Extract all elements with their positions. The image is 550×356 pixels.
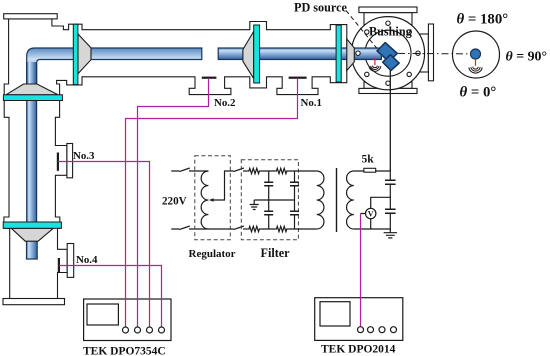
- sensor No.2: [202, 77, 217, 79]
- svg-text:Regulator: Regulator: [189, 248, 236, 260]
- vertical tank bottom end plate: [3, 299, 65, 305]
- svg-text:V: V: [368, 209, 374, 218]
- svg-text:θ = 90°: θ = 90°: [506, 50, 548, 65]
- discharge mark (red): [374, 58, 376, 65]
- svg-text:No.2: No.2: [214, 97, 235, 109]
- basin insulator cone at chamber entrance: [347, 39, 355, 71]
- basin insulator cone at flange A: [78, 34, 91, 74]
- basin insulator cone above vertical flange 1: [6, 84, 58, 95]
- secondary top wire: [354, 170, 391, 172]
- PD chamber top stub: [364, 13, 412, 25]
- wire sensor No.1 to scope ch1: [126, 78, 298, 327]
- transformer core: [336, 168, 338, 232]
- regulator winding: [201, 171, 208, 229]
- PD source dot: [471, 49, 481, 59]
- chamber inner flange circle: [365, 30, 411, 76]
- dot discharge line (red): [475, 59, 477, 66]
- bushing (rotated rectangle): [377, 43, 397, 62]
- regulator dashed box: [195, 156, 231, 240]
- sensor No.3 pod plate: [67, 144, 73, 178]
- svg-text:TEK DPO7354C: TEK DPO7354C: [83, 345, 166, 356]
- PD chamber body circle: [351, 17, 424, 90]
- filter ground: [250, 200, 259, 210]
- basin insulator cone below vertical flange 2: [11, 228, 53, 241]
- svg-text:PD source: PD source: [294, 1, 348, 15]
- vertical pipe shading: [27, 62, 36, 96]
- filter dashed box: [241, 160, 298, 240]
- HV lead from bushing down to circuit: [389, 68, 391, 171]
- svg-text:No.1: No.1: [301, 97, 322, 109]
- chamber bolt holes: [365, 21, 421, 85]
- basin insulator cone at flange B: [243, 31, 254, 78]
- sensor No.1: [289, 77, 307, 79]
- DPO2014 input connectors: [358, 327, 364, 333]
- filter series resistor bottom-left: [248, 226, 261, 231]
- svg-text:Filter: Filter: [261, 246, 291, 260]
- flange C (cyan): [336, 25, 341, 82]
- transformer secondary winding: [347, 171, 354, 229]
- vertical flange 1 (cyan): [3, 95, 62, 101]
- svg-text:No.3: No.3: [73, 150, 95, 162]
- voltmeter: [366, 208, 376, 218]
- divider capacitor 2: [385, 209, 396, 213]
- GIS tank shell: [4, 19, 347, 299]
- PD chamber right stub: [418, 34, 428, 72]
- svg-text:5k: 5k: [362, 153, 375, 165]
- vertical conductor pipe stub: [27, 240, 38, 259]
- sensor No.4 pod plate: [67, 244, 74, 278]
- sensor No.3: [57, 153, 59, 171]
- divider capacitor 1: [389, 171, 391, 233]
- sensor No.4: [58, 258, 60, 273]
- wire: [261, 228, 317, 230]
- svg-text:No.4: No.4: [76, 254, 98, 266]
- regulator tap: [212, 171, 234, 200]
- DPO7354C input connectors: [123, 327, 129, 333]
- svg-text:TEK DPO2014: TEK DPO2014: [321, 344, 396, 356]
- filter series resistor bottom-right: [275, 226, 288, 231]
- conductor pipe elbow + upper horizontal run: [27, 48, 202, 97]
- dash-dot axis line to angle reference: [398, 52, 470, 55]
- PD source electrode (diamond): [383, 55, 399, 71]
- wire: [261, 170, 317, 172]
- wire sensor No.4 to scope ch4: [59, 266, 162, 327]
- wire sensor No.3 to scope ch3: [58, 162, 150, 327]
- svg-text:Bushing: Bushing: [369, 24, 412, 38]
- voltmeter tap: [361, 197, 391, 229]
- chamber left bolt hole (over pipe): [356, 51, 360, 55]
- filter series resistor top-right: [275, 168, 288, 173]
- transformer primary winding: [317, 171, 324, 229]
- TEK DPO7354C oscilloscope: [84, 299, 171, 341]
- wire sensor No.2 to scope ch2: [138, 78, 209, 327]
- filter shunt branch 2 capacitors: [294, 171, 296, 229]
- corner box top flange plate: [4, 14, 58, 19]
- dashed leader from PD source label: [346, 11, 377, 49]
- angle reference circle: [453, 31, 500, 78]
- flange A (cyan): [73, 24, 78, 84]
- wire voltmeter to DPO2014: [360, 214, 362, 327]
- filter midpoint link: [254, 199, 294, 201]
- secondary bottom wire: [354, 228, 391, 230]
- vertical flange 2 (cyan): [3, 222, 61, 228]
- vertical conductor pipe (mid section): [27, 100, 37, 223]
- PD chamber bottom stub: [364, 82, 412, 88]
- discharge arcs: [372, 66, 377, 68]
- svg-text:θ = 0°: θ = 0°: [460, 84, 497, 100]
- switch after regulator (top): [234, 168, 244, 172]
- filter shunt branch 1 capacitors: [268, 171, 270, 229]
- filter series resistor top-left: [248, 168, 261, 173]
- flange B (cyan): [254, 25, 260, 83]
- svg-text:220V: 220V: [162, 196, 187, 208]
- horizontal conductor pipe (right section): [218, 48, 381, 60]
- TEK DPO2014 oscilloscope: [315, 298, 403, 341]
- 5k resistor: [364, 168, 376, 172]
- switch after regulator (bottom): [234, 226, 244, 230]
- svg-text:θ = 180°: θ = 180°: [457, 12, 509, 28]
- 220V supply leads with switch: [171, 170, 208, 172]
- dot discharge arcs: [473, 67, 479, 69]
- ground (divider): [384, 233, 397, 238]
